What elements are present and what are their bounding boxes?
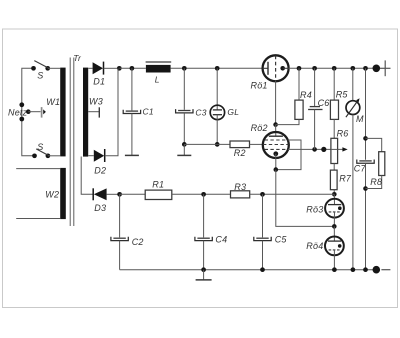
wire D2 cathode riser up to node A: [105, 68, 118, 155]
wire node E down and right to Ro3/Ro4 node: [276, 170, 335, 227]
resistor R2: [230, 141, 250, 158]
node C3/ground/grid-line: [182, 142, 187, 147]
node E (Ro2 cathode/loop): [274, 167, 279, 172]
ground bar under C1: [125, 154, 139, 156]
plus sign: [380, 60, 391, 76]
wire wiper line from Ro2 to R6 arrow: [288, 148, 343, 150]
svg-text:C5: C5: [275, 235, 288, 245]
wire C2 to bottom rail: [119, 241, 121, 270]
wire R6 to R7: [333, 164, 335, 171]
svg-text:W1: W1: [46, 97, 60, 107]
wire switch S to winding W1 top: [48, 67, 61, 69]
node bottom C7: [363, 267, 368, 272]
wire C6 bottom to wiper line: [314, 110, 316, 150]
wire grid line C3 node to GL node to R2: [184, 143, 230, 145]
wire top rail Ro1 to plus terminal: [289, 67, 377, 69]
svg-text:Rö2: Rö2: [251, 123, 268, 133]
node bottom M: [351, 267, 356, 272]
wire D1 to node A: [104, 67, 120, 69]
diode D1: [93, 62, 106, 87]
wire C4 drop: [203, 194, 205, 237]
wire switch S bottom to winding W1 bottom: [48, 155, 60, 157]
tube Ro4 (stabilizer): [306, 226, 344, 255]
svg-text:C6: C6: [318, 98, 330, 108]
tube Ro1 (series regulator): [251, 55, 289, 90]
svg-text:D1: D1: [93, 77, 105, 87]
node bottom C5: [260, 267, 265, 272]
svg-text:R2: R2: [234, 148, 246, 158]
node C4 tap: [201, 192, 206, 197]
minus output terminal: [373, 266, 381, 274]
resistor R7: [330, 170, 351, 190]
node bottom Ro4: [332, 267, 337, 272]
node C3 tap: [182, 66, 187, 71]
node H (C7/R8 bottom): [363, 186, 368, 191]
minus sign: [381, 269, 390, 271]
svg-text:W3: W3: [89, 96, 103, 106]
svg-text:Netz: Netz: [8, 107, 28, 117]
node M tap: [350, 66, 355, 71]
node wiper junction: [321, 147, 326, 152]
transformer core: [69, 58, 71, 227]
node F (R7/Ro3/neg line): [332, 192, 337, 197]
resistor R1: [145, 180, 172, 200]
wire Ro4 to bottom rail: [333, 250, 335, 270]
wire C3 to grid line node: [183, 113, 185, 144]
node B (D3 / C2 / R1): [117, 192, 122, 197]
capacitor C6: [308, 68, 329, 109]
wire R7 to node F: [333, 190, 335, 195]
wire bottom rail: [120, 269, 377, 271]
node I (Ro3/Ro4): [332, 224, 337, 229]
resistor R4: [295, 68, 312, 119]
wire C5 to bottom rail: [262, 241, 264, 270]
capacitor C4: [195, 235, 227, 245]
resistor R8: [366, 138, 385, 188]
wire L to tube Ro1: [171, 67, 263, 69]
winding W1: [60, 68, 65, 157]
node GL/R2: [215, 142, 220, 147]
node D (Ro1/R4/Ro2): [273, 122, 278, 127]
node C7/R8 tap: [363, 66, 368, 71]
wire C3 drop: [183, 68, 185, 110]
capacitor C2: [111, 237, 144, 247]
wire C1 to ground: [131, 114, 133, 156]
svg-text:L: L: [155, 74, 160, 84]
wire C7/R8 branch drop: [365, 68, 367, 159]
node R4 tap: [297, 66, 302, 71]
node A (D1/D2 cathodes): [117, 66, 122, 71]
wire Ro1 cathode down to node D: [275, 81, 277, 125]
ground stub below bottom rail: [203, 270, 205, 280]
wire top rail node A to L: [119, 67, 146, 69]
wire R2 to Ro2 grid: [250, 143, 263, 145]
diode D3: [93, 188, 106, 213]
svg-text:R6: R6: [337, 128, 349, 138]
wire negative line node B to node F: [120, 193, 146, 195]
ground stub below C3 node: [183, 144, 185, 155]
inductor L: [146, 62, 172, 84]
capacitor C3: [176, 107, 207, 117]
capacitor C1: [123, 107, 154, 117]
plus output terminal: [373, 65, 381, 73]
node C6 bottom on wiper line: [312, 147, 317, 152]
wire primary top from left corner to switch S: [22, 68, 35, 156]
switch S (top): [31, 61, 50, 81]
wire W2 bottom lead: [16, 218, 60, 220]
svg-text:R3: R3: [234, 182, 246, 192]
wire C2 drop: [119, 194, 121, 237]
glow lamp GL: [210, 105, 239, 119]
wire Ro2 right loop g-to-cathode: [276, 140, 301, 170]
wire R5 to R6: [333, 119, 335, 138]
wire Ro3 to node I: [333, 212, 335, 227]
svg-text:C3: C3: [195, 107, 206, 117]
wire GL drop from rail: [216, 68, 218, 110]
svg-text:M: M: [356, 114, 364, 124]
svg-text:Tr: Tr: [73, 53, 82, 63]
node C6 tap: [312, 66, 317, 71]
svg-text:R1: R1: [152, 180, 164, 190]
node bottom C4: [201, 267, 206, 272]
svg-text:D3: D3: [94, 203, 106, 213]
diode D2: [94, 149, 106, 175]
svg-text:GL: GL: [227, 107, 239, 117]
wire wiper crossing R6 body: [331, 148, 338, 150]
node R5 tap: [332, 66, 337, 71]
resistor R5: [330, 68, 348, 119]
winding W2: [60, 168, 66, 219]
node G (C7/R8 top): [363, 136, 368, 141]
ground bar below bottom rail: [196, 279, 212, 281]
node Netz terminal lower: [19, 117, 24, 122]
ground bar under C3 node: [177, 154, 191, 156]
wire R1 to R3: [172, 193, 231, 195]
resistor R6 (potentiometer): [331, 128, 349, 163]
svg-text:C1: C1: [143, 107, 154, 117]
wire C4 to bottom rail: [203, 241, 205, 270]
node C5 tap: [260, 192, 265, 197]
svg-text:C2: C2: [132, 237, 144, 247]
wire D3 to node B: [107, 193, 120, 195]
resistor R3: [231, 182, 250, 198]
capacitor C5: [254, 235, 288, 245]
wire W2 top lead: [16, 168, 60, 170]
svg-text:R8: R8: [370, 177, 382, 187]
wire W3 bottom down to D3: [81, 157, 93, 195]
wire R3 to node F: [250, 193, 335, 195]
switch S (bottom): [32, 142, 50, 158]
svg-text:R5: R5: [336, 90, 349, 100]
wire C1 drop: [131, 68, 133, 110]
svg-text:S: S: [37, 142, 43, 152]
wire W3 top to D1: [88, 67, 92, 69]
wire M bottom to minus rail: [352, 115, 354, 270]
winding W3: [83, 68, 88, 157]
meter M: [346, 68, 364, 124]
W3 center tap wire to chassis bar: [88, 107, 99, 117]
tube Ro2 (error amplifier): [251, 123, 289, 158]
capacitor C7: [354, 160, 374, 174]
wire C7 bottom to node H: [365, 163, 367, 269]
svg-text:C7: C7: [354, 163, 367, 173]
svg-text:R4: R4: [300, 90, 312, 100]
svg-text:D2: D2: [94, 165, 106, 175]
svg-text:S: S: [37, 71, 43, 81]
wire Ro2 cathode down: [275, 154, 277, 170]
svg-text:Rö1: Rö1: [251, 81, 268, 91]
svg-text:C4: C4: [215, 235, 227, 245]
svg-text:Rö4: Rö4: [306, 241, 323, 251]
wire R4 bottom to node D: [276, 119, 299, 124]
node GL tap: [215, 66, 220, 71]
wire W3 bottom to D2: [88, 155, 94, 157]
node Netz terminal upper: [19, 102, 24, 107]
svg-text:Rö3: Rö3: [306, 205, 323, 215]
wiper arrowhead at R6: [342, 147, 347, 151]
svg-text:W2: W2: [45, 190, 59, 200]
tube Ro3 (stabilizer): [306, 194, 344, 217]
node C1 tap: [130, 66, 135, 71]
wire GL to grid line node: [216, 115, 218, 145]
svg-text:R7: R7: [339, 174, 352, 184]
wire C5 drop: [262, 194, 264, 237]
Netz plug arrow tap: [26, 107, 46, 118]
